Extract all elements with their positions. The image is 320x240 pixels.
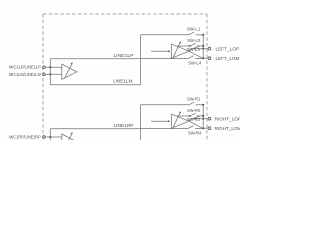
node bypass tap M bbox=[49, 73, 51, 75]
svg-text:LINE1LP: LINE1LP bbox=[114, 53, 134, 58]
wire SW-L4 to bus bbox=[195, 58, 203, 60]
gain arrow right MICPGA bbox=[65, 134, 73, 148]
node bypass tap RP bbox=[49, 136, 51, 138]
op-amp right line driver bbox=[171, 114, 189, 128]
wire right output bus bbox=[202, 105, 204, 128]
wire LEFT_LOM to pin bbox=[203, 57, 208, 59]
switch SW-R3 blade bbox=[193, 116, 200, 118]
svg-text:SW-R1: SW-R1 bbox=[187, 97, 201, 102]
svg-text:RIGHT_LOP: RIGHT_LOP bbox=[215, 116, 241, 121]
op-amp left MICPGA bbox=[62, 64, 77, 79]
wire bypass riser left bbox=[49, 59, 51, 85]
wire SW-L0 from driver bbox=[177, 45, 189, 47]
svg-text:SW-L0: SW-L0 bbox=[187, 38, 201, 43]
wire RIGHT_LOP to pin bbox=[203, 118, 208, 120]
op-amp left line driver bbox=[171, 44, 189, 58]
pin RIGHT_LOP bbox=[208, 117, 211, 120]
svg-text:SW-L4: SW-L4 bbox=[188, 60, 202, 65]
wire SW-L1 to bus bbox=[196, 34, 204, 36]
wire bypass riser right bbox=[49, 129, 51, 140]
pin MIC1LP/LINE1LP bbox=[43, 66, 46, 69]
wire driver out to SW-L3 row bbox=[189, 49, 203, 52]
switch SW-R0 contact bbox=[189, 115, 191, 117]
node SW-L1 bus bbox=[202, 34, 204, 36]
node SW-R3 bus bbox=[202, 118, 204, 120]
wire RIGHT_LOM to pin bbox=[203, 127, 208, 129]
wire LINE1LM bypass bbox=[50, 84, 140, 86]
node SW-R1 bus bbox=[202, 104, 204, 106]
dashed codec boundary top bbox=[43, 13, 207, 15]
svg-text:MIC1RP/LINE1RP: MIC1RP/LINE1RP bbox=[9, 134, 41, 139]
svg-text:LEFT_LOM: LEFT_LOM bbox=[216, 56, 240, 61]
switch SW-L0 contact bbox=[189, 45, 191, 47]
wire LINE1RP bypass bbox=[50, 128, 140, 130]
pin LEFT_LOP bbox=[208, 47, 211, 50]
wire MIC1LM to PGA bbox=[45, 73, 62, 75]
gain arrow right driver bbox=[173, 113, 180, 127]
gain arrow left MICPGA bbox=[65, 64, 73, 78]
input arrow left driver bbox=[151, 50, 168, 52]
svg-text:LEFT_LOP: LEFT_LOP bbox=[216, 46, 240, 51]
node SW-L3 bus bbox=[202, 48, 204, 50]
wire LEFT_LOP to pin bbox=[203, 48, 208, 50]
switch SW-L3 blade bbox=[193, 46, 200, 48]
node SW-L0 bus bbox=[202, 45, 204, 47]
node SW-L4 bus bbox=[202, 57, 204, 59]
wire MIC1LP to PGA bbox=[45, 66, 62, 68]
wire left output bus bbox=[202, 35, 204, 58]
gain arrow left driver bbox=[173, 43, 180, 57]
svg-text:RIGHT_LOM: RIGHT_LOM bbox=[215, 126, 241, 131]
wire SW-R1 to bus bbox=[196, 104, 204, 106]
wire MIC1RP to PGA bbox=[45, 136, 62, 138]
switch SW-R1 blade bbox=[189, 102, 194, 105]
wire SW-R0 from driver bbox=[177, 115, 189, 117]
switch SW-R4 blade bbox=[188, 126, 194, 129]
switch SW-L0 blade bbox=[191, 43, 196, 45]
svg-text:LINE1RP: LINE1RP bbox=[114, 123, 134, 128]
wire riser LINE1LP to SW-L1 bbox=[140, 35, 142, 85]
wire SW-L1 row bbox=[141, 34, 189, 36]
switch SW-R0 blade bbox=[191, 113, 196, 115]
svg-text:SW-L3: SW-L3 bbox=[187, 47, 201, 52]
wire LINE1LP bypass bbox=[50, 58, 140, 60]
wire SW-R4 row bbox=[141, 128, 188, 130]
input arrow right driver bbox=[151, 120, 168, 122]
dashed codec boundary right bbox=[206, 14, 208, 140]
switch SW-L1 blade bbox=[189, 32, 194, 35]
wire SW-R4 to bus bbox=[195, 128, 203, 130]
wire SW-L0 to bus bbox=[197, 45, 204, 47]
dashed codec boundary left bbox=[42, 14, 44, 140]
op-amp right MICPGA (cropped) bbox=[62, 134, 77, 149]
node bypass tap P bbox=[49, 66, 51, 68]
wire riser LINE1RP to SW-R1 bbox=[140, 105, 142, 140]
node SW-R0 bus bbox=[202, 115, 204, 117]
svg-text:SW-R0: SW-R0 bbox=[187, 108, 201, 113]
wire SW-L4 row bbox=[141, 58, 188, 60]
wire SW-R1 row bbox=[141, 104, 189, 106]
node SW-R4 bus bbox=[202, 127, 204, 129]
svg-text:SW-L1: SW-L1 bbox=[187, 27, 201, 32]
svg-text:MIC1LP/LINE1LP: MIC1LP/LINE1LP bbox=[9, 65, 41, 70]
switch SW-L4 blade bbox=[188, 56, 194, 59]
wire driver out to SW-R3 row bbox=[189, 119, 203, 122]
svg-text:SW-R3: SW-R3 bbox=[187, 117, 201, 122]
svg-text:MIC1LM/LINE1LM: MIC1LM/LINE1LM bbox=[9, 72, 41, 77]
pin LEFT_LOM bbox=[208, 57, 211, 60]
pin MIC1RP/LINE1RP bbox=[43, 136, 46, 139]
svg-text:SW-R4: SW-R4 bbox=[188, 130, 202, 135]
wire SW-R0 to bus bbox=[197, 115, 204, 117]
pin RIGHT_LOM bbox=[208, 127, 211, 130]
pin MIC1LM/LINE1LM bbox=[43, 73, 46, 76]
svg-text:LINE1LM: LINE1LM bbox=[113, 79, 133, 84]
